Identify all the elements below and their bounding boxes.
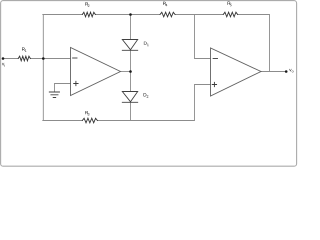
wire D2 cathode down to bottom rail bbox=[130, 102, 132, 120]
wire node A vertical down to bottom rail bbox=[42, 59, 44, 121]
wire D1 cathode to node D bbox=[130, 50, 132, 71]
resistor R5 bbox=[223, 12, 237, 17]
label R4 bbox=[163, 2, 166, 5]
U2 plus symbol bbox=[212, 82, 216, 86]
resistor R2 bbox=[82, 12, 95, 17]
wire R3 to corner, up to U2 noninverting input bbox=[97, 85, 210, 121]
wire top rail to R2 bbox=[43, 14, 83, 16]
op-amp U2 bbox=[211, 48, 262, 96]
wire node A up to top feedback rail bbox=[42, 15, 44, 59]
label R2 bbox=[85, 2, 88, 5]
wire U2 output to terminal vo bbox=[261, 71, 286, 73]
wire bottom rail left segment to R3 bbox=[43, 120, 83, 122]
wire R2 to node B and on to R4 bbox=[95, 14, 160, 16]
U1 minus symbol bbox=[73, 57, 77, 59]
label vo bbox=[289, 69, 291, 71]
U2 minus symbol bbox=[213, 58, 217, 60]
wire R1 to op-amp U1 inverting input bbox=[31, 58, 71, 60]
label R5 bbox=[228, 2, 231, 5]
label R3 bbox=[85, 111, 88, 114]
label D2 bbox=[144, 93, 147, 96]
output terminal vo bbox=[285, 70, 288, 73]
wire U1 noninverting input to ground stub bbox=[55, 84, 71, 92]
diode D2 bbox=[122, 92, 137, 103]
ground bbox=[49, 92, 59, 98]
label D1 bbox=[144, 42, 147, 45]
input terminal vi bbox=[2, 57, 5, 60]
wire R4 to node C bbox=[175, 14, 223, 16]
wire U1 output to diode branch node D bbox=[121, 71, 131, 73]
label R1 bbox=[22, 47, 25, 50]
resistor R3 bbox=[82, 118, 97, 123]
label vi bbox=[2, 63, 4, 65]
node B junction dot bbox=[129, 13, 132, 16]
op-amp U1 bbox=[71, 48, 121, 96]
diode D1 bbox=[122, 40, 137, 51]
wire node C down to U2 inverting input bbox=[195, 15, 211, 59]
wire node D down to D2 anode bbox=[130, 72, 132, 92]
wire R5 to top-right corner, down to output node bbox=[238, 15, 270, 72]
resistor R1 bbox=[18, 56, 30, 61]
node A junction dot bbox=[42, 57, 45, 60]
wire node B down to D1 anode bbox=[130, 15, 132, 40]
U1 plus symbol bbox=[74, 81, 78, 85]
wire input terminal to R1 bbox=[3, 58, 18, 60]
node D junction dot (U1 output) bbox=[129, 70, 132, 73]
resistor R4 bbox=[160, 12, 175, 17]
